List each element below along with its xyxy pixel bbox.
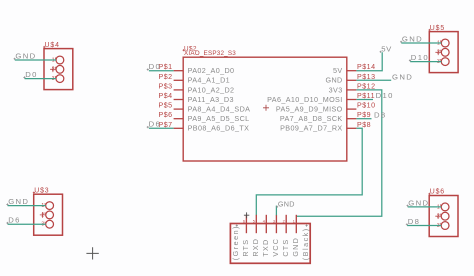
wire GND from P$13 <box>356 79 391 81</box>
svg-text:5V: 5V <box>381 45 392 54</box>
U$3 origin cross <box>40 212 46 218</box>
svg-text:D8: D8 <box>374 111 387 120</box>
svg-text:5V: 5V <box>333 66 343 75</box>
svg-text:GND: GND <box>325 76 342 85</box>
pin P$12 3V3 <box>329 82 376 94</box>
svg-text:P$2: P$2 <box>158 73 172 81</box>
svg-text:U$6: U$6 <box>430 189 445 196</box>
svg-text:GND: GND <box>278 200 295 209</box>
svg-text:PA4_A1_D1: PA4_A1_D1 <box>188 76 230 85</box>
connector pin 2 stub <box>285 215 287 233</box>
wire 5V from P$14 <box>356 52 382 70</box>
svg-text:TXD: TXD <box>261 239 270 257</box>
svg-text:VCC: VCC <box>271 238 280 257</box>
connector pin 3 stub <box>275 215 277 233</box>
svg-text:GND: GND <box>402 34 423 43</box>
connector U$3 <box>33 187 63 235</box>
svg-text:D6: D6 <box>149 120 162 129</box>
wire GND to U$6 pin 1 <box>408 206 442 208</box>
sheet origin cross <box>86 247 98 259</box>
wire D8 to U$6 pin 3 <box>407 225 441 227</box>
U$5 pin 1 <box>437 39 449 47</box>
svg-text:RXD: RXD <box>251 238 260 257</box>
svg-text:GND: GND <box>408 198 429 207</box>
pin P$3 PA10_A2_D2 <box>158 82 234 94</box>
svg-text:D8: D8 <box>408 217 421 226</box>
wire D6 to pin P$7 <box>149 127 174 129</box>
svg-text:(Green): (Green) <box>231 225 240 260</box>
connector pin 6 stub <box>245 215 247 233</box>
wire D0 to U$4 pin 3 <box>25 78 56 80</box>
wire D10 to U$5 pin 3 <box>410 61 441 63</box>
pin P$13 GND <box>325 73 375 85</box>
pin P$8 PB09_A7_D7_RX <box>280 121 371 133</box>
pin P$11 PA6_A10_D10_MOSI <box>267 92 375 104</box>
svg-text:PA8_A4_D4_SDA: PA8_A4_D4_SDA <box>188 105 251 114</box>
U$5 pin 2 <box>437 48 449 56</box>
pin P$14 5V <box>333 63 376 75</box>
pin P$4 PA11_A3_D3 <box>158 92 233 104</box>
svg-text:GND: GND <box>392 73 413 82</box>
svg-text:D0: D0 <box>25 70 38 79</box>
svg-text:GND: GND <box>15 51 36 60</box>
pin P$9 PA7_A8_D8_SCK <box>280 111 371 123</box>
U$3 pin 3 <box>41 220 53 228</box>
svg-text:3: 3 <box>273 219 275 223</box>
U$3 pin 1 <box>41 202 53 210</box>
svg-text:2: 2 <box>283 219 285 223</box>
U$5 pin 3 <box>437 58 449 66</box>
svg-text:D10: D10 <box>376 91 394 100</box>
pin P$6 PA9_A5_D5_SCL <box>158 111 249 123</box>
pin P$1 PA02_A0_D0 <box>158 63 234 75</box>
U$6 origin cross <box>435 213 441 219</box>
svg-text:5: 5 <box>253 219 255 223</box>
connector origin cross <box>244 212 249 218</box>
wire RX net P$8 to connector RXD pin <box>256 128 362 215</box>
connector U$6 <box>428 189 458 237</box>
svg-text:3V3: 3V3 <box>329 85 343 94</box>
module U$2 XIAO_ESP32_S3 <box>183 45 347 161</box>
svg-text:U$4: U$4 <box>45 42 60 49</box>
svg-text:P$13: P$13 <box>357 73 376 81</box>
svg-text:PA9_A5_D5_SCL: PA9_A5_D5_SCL <box>188 114 250 123</box>
svg-text:D10: D10 <box>411 53 429 62</box>
connector U$4 <box>43 42 73 90</box>
wire D0 to pin P$1 <box>149 70 174 72</box>
svg-text:4: 4 <box>263 219 265 223</box>
svg-text:PA02_A0_D0: PA02_A0_D0 <box>188 66 235 75</box>
U$4 pin 2 <box>52 65 64 73</box>
U$3 pin 2 <box>41 211 53 219</box>
connector pin 5 stub <box>255 215 257 233</box>
svg-text:PA10_A2_D2: PA10_A2_D2 <box>188 85 235 94</box>
svg-text:P$3: P$3 <box>158 82 172 90</box>
pin P$5 PA8_A4_D4_SDA <box>158 102 250 114</box>
svg-text:P$5: P$5 <box>158 102 172 110</box>
svg-text:6: 6 <box>243 219 245 223</box>
wire D10 from P$11 <box>356 99 373 101</box>
svg-text:PA7_A8_D8_SCK: PA7_A8_D8_SCK <box>280 114 343 123</box>
wire 3V3 net P$12 to connector GND pin <box>296 90 382 216</box>
wire GND to U$5 pin 1 <box>401 42 441 44</box>
svg-text:PA11_A3_D3: PA11_A3_D3 <box>188 95 234 104</box>
svg-text:XIAO_ESP32_S3: XIAO_ESP32_S3 <box>184 50 236 57</box>
svg-text:P$8: P$8 <box>357 121 371 129</box>
U$5 origin cross <box>435 50 441 56</box>
svg-text:(Black): (Black) <box>301 227 310 260</box>
U$4 origin cross <box>50 67 56 73</box>
svg-text:P$10: P$10 <box>357 102 376 110</box>
connector pin 1 stub <box>295 215 297 233</box>
svg-text:1: 1 <box>293 219 295 223</box>
svg-text:P$12: P$12 <box>357 82 376 90</box>
svg-text:PA6_A10_D10_MOSI: PA6_A10_D10_MOSI <box>267 95 342 104</box>
wire D6 to U$3 pin 3 <box>8 223 46 225</box>
U$6 pin 2 <box>437 212 449 220</box>
svg-text:U$5: U$5 <box>430 25 445 32</box>
svg-text:U$3: U$3 <box>34 187 49 194</box>
svg-text:D6: D6 <box>8 216 21 225</box>
serial cable connector <box>230 224 310 264</box>
svg-text:P$14: P$14 <box>357 63 376 71</box>
connector U$5 <box>428 25 458 73</box>
svg-text:D0: D0 <box>149 62 162 71</box>
U$6 pin 3 <box>437 222 449 230</box>
svg-text:PB08_A6_D6_TX: PB08_A6_D6_TX <box>188 124 250 133</box>
svg-text:RTS: RTS <box>241 239 250 257</box>
wire GND to U$4 pin 1 <box>15 59 56 61</box>
U$6 pin 1 <box>437 203 449 211</box>
svg-text:P$4: P$4 <box>158 92 172 100</box>
wire GND stub to VCC pin <box>275 206 277 216</box>
U$4 pin 3 <box>52 75 64 83</box>
pin P$7 PB08_A6_D6_TX <box>158 121 249 133</box>
wire D8 from P$9 <box>356 118 371 120</box>
svg-text:PB09_A7_D7_RX: PB09_A7_D7_RX <box>280 124 342 133</box>
svg-text:P$9: P$9 <box>357 111 371 119</box>
svg-text:P$11: P$11 <box>357 92 375 100</box>
connector pin 4 stub <box>265 215 267 233</box>
pin P$2 PA4_A1_D1 <box>158 73 230 85</box>
pin P$10 PA5_A9_D9_MISO <box>276 102 376 114</box>
svg-text:CTS: CTS <box>281 239 290 257</box>
U$2 origin cross <box>263 105 269 111</box>
svg-text:PA5_A9_D9_MISO: PA5_A9_D9_MISO <box>276 105 343 114</box>
U$4 pin 1 <box>52 56 64 64</box>
svg-text:GND: GND <box>8 197 29 206</box>
svg-text:P$6: P$6 <box>158 111 172 119</box>
svg-text:GND: GND <box>291 237 300 257</box>
wire GND to U$3 pin 1 <box>8 205 46 207</box>
